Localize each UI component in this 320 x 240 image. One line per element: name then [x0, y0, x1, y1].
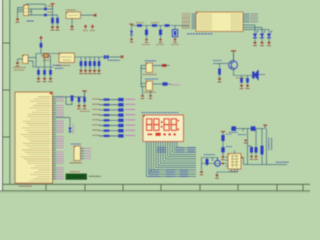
sheet background [0, 0, 310, 193]
IC U5 [228, 154, 241, 170]
ground [267, 42, 271, 46]
wire [47, 9, 57, 17]
net label [93, 114, 100, 116]
wire [89, 57, 91, 70]
ferrite bead FB3 [152, 24, 157, 27]
ground [70, 26, 74, 30]
wire [75, 56, 104, 58]
resistor R3 [104, 109, 110, 111]
IC U2 CPLD [196, 12, 243, 32]
connector J1 [74, 146, 81, 161]
wire [99, 130, 118, 132]
wire [80, 57, 82, 70]
wire [99, 104, 118, 106]
net label [145, 60, 156, 62]
LED D1 [253, 31, 258, 42]
wire [146, 26, 148, 39]
ground [218, 78, 222, 82]
ground [253, 42, 257, 46]
label [66, 9, 76, 11]
ferrite bead FB2 [137, 24, 142, 27]
MCU U4 [15, 92, 53, 183]
net label [213, 60, 222, 62]
net label [27, 20, 34, 22]
net label [226, 134, 233, 146]
capacitor C5 [40, 43, 43, 48]
U2 left pins [182, 14, 196, 29]
power flag VDD [83, 25, 88, 31]
no-connect mark [94, 14, 97, 17]
label [144, 91, 156, 93]
wire [153, 65, 163, 67]
resistor R5 [104, 119, 110, 121]
power flag [221, 131, 225, 133]
IC U1 regulator [24, 5, 29, 16]
J1 pins [81, 148, 92, 158]
power flag [82, 91, 86, 98]
ground [145, 39, 148, 42]
LED L2 [118, 103, 123, 106]
capacitor C14 [206, 159, 209, 165]
net label [126, 124, 136, 126]
ground [84, 70, 88, 74]
bus net labels [149, 148, 195, 177]
wire [132, 25, 190, 27]
resistor R7 [104, 129, 110, 131]
connector P1 [66, 174, 87, 179]
wire [99, 114, 118, 116]
power flag VEE [90, 25, 95, 31]
wire [99, 125, 118, 127]
capacitor [93, 61, 96, 66]
capacitor C20 [159, 30, 162, 36]
capacitor C4 [56, 18, 59, 27]
label [70, 162, 82, 164]
capacitor C19 [145, 30, 148, 36]
ground [49, 78, 53, 82]
resistor R8 [104, 135, 110, 137]
varistor RV1 [172, 30, 177, 37]
power flag [231, 51, 236, 61]
sheet border frame [0, 0, 310, 193]
wire [85, 57, 87, 70]
ground [260, 42, 264, 46]
LED L5 [118, 119, 123, 122]
power flag [39, 36, 43, 54]
label [89, 175, 101, 177]
wire [99, 109, 118, 111]
no-connect mark [121, 56, 124, 59]
wire [141, 66, 147, 87]
capacitor [80, 61, 83, 66]
display DS1 [143, 115, 184, 142]
wire [202, 158, 229, 171]
wire [222, 132, 224, 156]
wire [213, 63, 229, 65]
ground [77, 105, 81, 109]
net label [126, 98, 136, 100]
ground [159, 39, 162, 42]
label [70, 171, 80, 173]
wire [99, 135, 118, 137]
wire [244, 164, 287, 166]
net label [126, 134, 136, 136]
diode D5 [163, 82, 168, 85]
ground [254, 156, 257, 159]
ground [88, 70, 92, 74]
ground [130, 39, 133, 42]
net label [126, 114, 136, 116]
ground [173, 39, 176, 42]
net label [269, 138, 272, 150]
ground [240, 85, 244, 89]
ground [79, 70, 83, 74]
resistor R9 [218, 68, 221, 74]
value label [142, 44, 179, 46]
wire [219, 75, 221, 78]
capacitor C7 [43, 70, 46, 78]
wire [255, 129, 257, 147]
wire [99, 119, 118, 121]
ground [246, 85, 250, 89]
capacitor C12 [83, 97, 86, 102]
diode D4 [162, 64, 170, 67]
capacitor C13 [221, 135, 224, 141]
wire [160, 26, 162, 39]
capacitor C1 [44, 8, 47, 11]
value label [136, 22, 159, 24]
power flag [263, 125, 267, 128]
ground [16, 62, 20, 66]
diode D6 [68, 128, 71, 132]
IC U3 [59, 53, 75, 63]
resistor R6 [104, 124, 110, 126]
net label [171, 84, 181, 86]
label [55, 66, 70, 69]
wire [266, 129, 268, 165]
LED D2 [260, 31, 265, 42]
resistor R4 [104, 114, 110, 116]
ground [93, 70, 97, 74]
net label [108, 59, 120, 61]
net label [93, 134, 100, 136]
resistor R2 [104, 104, 110, 106]
IC Q1 [146, 63, 153, 73]
label [229, 171, 238, 173]
IC Q2 [146, 81, 153, 91]
wire [28, 54, 59, 70]
wire [143, 87, 151, 96]
wire [56, 97, 85, 105]
capacitor C8 [49, 70, 52, 78]
net label [93, 124, 100, 126]
wire [141, 84, 147, 87]
label [143, 74, 157, 76]
net label [93, 103, 100, 105]
ground [149, 95, 152, 98]
part label [142, 112, 179, 114]
LED L7 [118, 129, 123, 132]
wire [71, 19, 73, 26]
U4 right pins [53, 97, 65, 179]
wire [99, 99, 118, 101]
wire [219, 64, 221, 68]
wire [26, 4, 46, 15]
refdes label U4 [19, 185, 32, 187]
net label [259, 74, 265, 76]
net label [53, 64, 61, 66]
wire [248, 129, 252, 165]
net label [126, 119, 136, 121]
net label [229, 132, 246, 134]
capacitor C2 [44, 14, 47, 17]
wire [174, 26, 176, 39]
wire [234, 69, 253, 77]
ground [56, 27, 60, 31]
wire [109, 56, 122, 58]
net label [204, 154, 215, 156]
wire [261, 155, 263, 165]
wire [242, 129, 244, 132]
net label [93, 108, 100, 110]
capacitor C11 [71, 95, 74, 101]
LED L3 [118, 108, 123, 111]
transistor Q3 [229, 61, 238, 70]
value label [43, 59, 51, 61]
net label [126, 109, 136, 111]
diode D8 [251, 126, 256, 131]
value label [13, 68, 26, 71]
capacitor C17 [255, 147, 258, 156]
net label [93, 119, 100, 121]
diode D7 [232, 126, 237, 131]
capacitor [89, 61, 92, 66]
capacitor C18 [221, 147, 224, 152]
resonator X1 [44, 54, 49, 58]
net label [145, 78, 158, 80]
U2 right pins [243, 14, 258, 22]
label [80, 110, 90, 112]
ground [221, 156, 225, 159]
wire [81, 14, 96, 16]
ground [215, 175, 219, 178]
LED L4 [118, 113, 123, 116]
wire [56, 118, 70, 134]
junction [241, 157, 243, 159]
net label [93, 98, 100, 100]
ground [141, 95, 144, 98]
resistor R10 [78, 97, 81, 102]
diode D9 [130, 31, 133, 35]
label [236, 77, 245, 79]
connector J2 [66, 12, 81, 19]
wire [18, 8, 24, 19]
capacitor C9 [240, 78, 243, 85]
capacitor C3 [51, 18, 54, 27]
ground [16, 19, 20, 23]
sensor TH1 [215, 158, 221, 167]
wire [98, 57, 100, 70]
wire [261, 129, 263, 145]
page margin strip [0, 0, 2, 193]
ground [37, 78, 41, 82]
net label [126, 129, 136, 131]
capacitor C6 [37, 70, 40, 78]
resistor R1 [104, 98, 110, 100]
net label [71, 143, 81, 145]
LED L6 [118, 124, 123, 127]
ground [51, 27, 55, 31]
LED L8 [118, 134, 123, 137]
ground [83, 105, 87, 109]
ferrite bead FB4 [165, 24, 170, 27]
wire [153, 83, 171, 85]
ferrite bead FB1 [104, 55, 109, 58]
net label [276, 161, 289, 163]
wire [131, 26, 133, 39]
display pin bus [147, 142, 197, 177]
part label [187, 33, 213, 35]
ground [43, 78, 47, 82]
net label [93, 129, 100, 131]
ground [244, 140, 247, 143]
buzzer LS1 [252, 69, 258, 80]
U5 pins [217, 151, 244, 175]
capacitor [98, 61, 101, 66]
net label [126, 103, 136, 105]
wire [231, 128, 265, 130]
wire [243, 25, 269, 33]
ground [97, 70, 101, 74]
power flag VCC [51, 4, 55, 9]
resistor R11 [261, 146, 264, 155]
LED D3 [267, 31, 272, 42]
value label [48, 6, 53, 12]
wire [18, 59, 23, 62]
junction [222, 163, 224, 165]
ground [250, 156, 253, 159]
LED L1 [118, 98, 123, 101]
ground [200, 171, 204, 174]
capacitor C16 [250, 147, 253, 156]
power flag [129, 24, 133, 25]
capacitor [84, 61, 87, 66]
net label [72, 124, 74, 134]
capacitor C10 [246, 78, 249, 85]
crystal Y1 [23, 55, 29, 64]
wire [94, 57, 96, 70]
